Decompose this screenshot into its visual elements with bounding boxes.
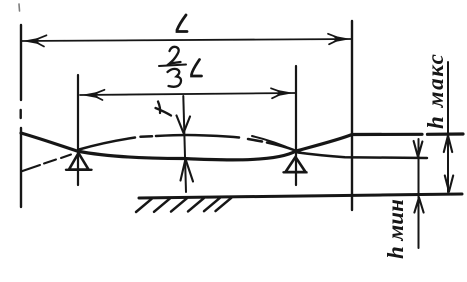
svg-text:h мин: h мин [383, 199, 408, 259]
svg-text:h макс: h макс [423, 53, 448, 129]
